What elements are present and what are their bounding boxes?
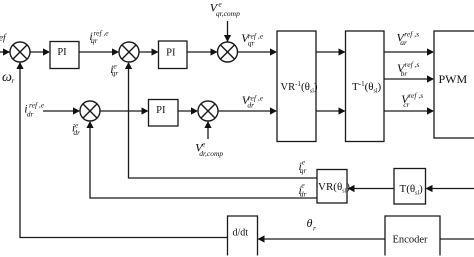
svg-text:cr: cr	[403, 100, 409, 109]
block T-1(theta_sl)	[346, 31, 385, 142]
svg-text:qr: qr	[300, 166, 307, 175]
summing junction SJ4	[80, 101, 100, 121]
arrowhead into VR-1 lower	[270, 107, 277, 114]
wire Vqr,comp into SJ3 top	[227, 21, 229, 42]
wire Encoder to right edge	[440, 238, 474, 240]
svg-text:br: br	[401, 69, 408, 78]
arrowhead into PI3	[142, 107, 149, 114]
wire VR-1 to T-1 lower	[316, 110, 345, 112]
wire idr ref input	[43, 110, 79, 112]
block PI3	[149, 100, 179, 127]
svg-text:qr,comp: qr,comp	[216, 9, 240, 18]
arrowhead iqr into SJ2 bottom	[125, 62, 132, 69]
block Encoder	[385, 216, 440, 256]
wire PI2 to SJ3	[187, 51, 217, 53]
arrowhead into VR-1 upper	[270, 48, 277, 55]
svg-text:PWM: PWM	[439, 72, 468, 86]
arrowhead into SJ4	[73, 107, 80, 114]
arrowhead into VR block right	[348, 185, 355, 192]
wire T block to VR block	[349, 188, 395, 190]
wire PI1 to SJ2	[79, 51, 118, 53]
wire SJ4 to PI3	[100, 110, 148, 112]
svg-text:T(θsl): T(θsl)	[400, 183, 424, 197]
summing junction SJ2	[119, 42, 139, 62]
arrowhead into SJ5	[191, 107, 198, 114]
svg-text:T-1(θsl): T-1(θsl)	[352, 80, 382, 95]
arrowhead into d/dt right	[258, 235, 265, 242]
svg-text:dr: dr	[247, 101, 254, 110]
wire idr feedback vertical to SJ4	[90, 122, 317, 198]
svg-text:ω: ω	[2, 70, 12, 85]
wire T-1 to PWM Vbr	[384, 78, 433, 80]
wire SJ2 to PI2	[139, 51, 158, 53]
svg-text:r: r	[313, 223, 316, 232]
block PI2	[159, 41, 188, 69]
arrowhead into PWM Vcr	[427, 107, 434, 114]
wire speed ref input	[0, 51, 10, 53]
svg-text:VR(θsl): VR(θsl)	[318, 181, 350, 195]
wire SJ5 to VR-1 block lower input	[218, 110, 276, 112]
block VR(theta_sl)	[317, 170, 347, 204]
arrowhead omega into SJ1 bottom	[16, 62, 23, 69]
wire T-1 to PWM Vcr	[384, 110, 433, 112]
svg-text:d/dt: d/dt	[233, 228, 249, 239]
svg-text:dr: dr	[27, 110, 34, 119]
block VR-1(theta_sl)	[277, 31, 316, 142]
wire SJ1 to PI1	[30, 51, 49, 53]
wire Encoder to d/dt	[259, 238, 386, 240]
svg-text:θ: θ	[307, 216, 313, 230]
svg-text:dr: dr	[300, 190, 307, 199]
svg-text:PI: PI	[156, 105, 166, 116]
arrowhead into T-1 upper	[339, 48, 346, 55]
summing junction SJ1	[10, 42, 30, 62]
svg-text:PI: PI	[166, 48, 176, 59]
svg-text:qr: qr	[112, 69, 119, 78]
svg-text:r: r	[12, 76, 15, 85]
summing junction SJ3	[218, 42, 238, 62]
block PWM	[434, 31, 474, 138]
arrowhead into PI1	[43, 48, 50, 55]
svg-text:qr: qr	[91, 36, 98, 45]
wire PI3 to SJ5	[178, 110, 197, 112]
svg-text:qr: qr	[248, 39, 255, 48]
block d/dt	[228, 216, 258, 256]
arrowhead Vqr,comp into SJ3	[224, 35, 231, 42]
svg-text:Encoder: Encoder	[393, 235, 428, 246]
arrowhead into SJ2	[112, 48, 119, 55]
arrowhead into SJ1	[3, 48, 10, 55]
svg-text:dr: dr	[73, 128, 80, 137]
wire SJ3 to VR-1 block	[238, 51, 277, 53]
arrowhead into PWM Vbr	[427, 75, 434, 82]
arrowhead Vdr,comp into SJ5	[204, 121, 211, 128]
arrowhead idr into SJ4 bottom	[86, 121, 93, 128]
svg-text:ref ,s: ref ,s	[405, 60, 420, 69]
arrowhead into T-1 lower	[339, 107, 346, 114]
block T(theta_sl)	[394, 169, 426, 205]
svg-text:ar: ar	[400, 38, 407, 47]
wire VR-1 to T-1 upper	[316, 51, 345, 53]
svg-text:dr,comp: dr,comp	[199, 149, 223, 158]
wire T-1 to PWM Var	[384, 51, 433, 53]
svg-text:ref ,e: ref ,e	[29, 100, 45, 109]
wire Vdr,comp into SJ5 bottom	[207, 122, 209, 139]
block PI1	[50, 42, 79, 69]
svg-text:ref ,s: ref ,s	[408, 91, 423, 100]
wire current sense into T block	[427, 188, 474, 190]
wire iqr feedback vertical to SJ2	[129, 63, 318, 178]
summing junction SJ5	[198, 101, 218, 121]
wire omega feedback d/dt to SJ1	[20, 63, 228, 238]
arrowhead into T block right	[426, 185, 433, 192]
arrowhead into PI2	[152, 48, 159, 55]
svg-text:PI: PI	[57, 47, 67, 58]
arrowhead into SJ3	[211, 48, 218, 55]
arrowhead into PWM Var	[427, 48, 434, 55]
